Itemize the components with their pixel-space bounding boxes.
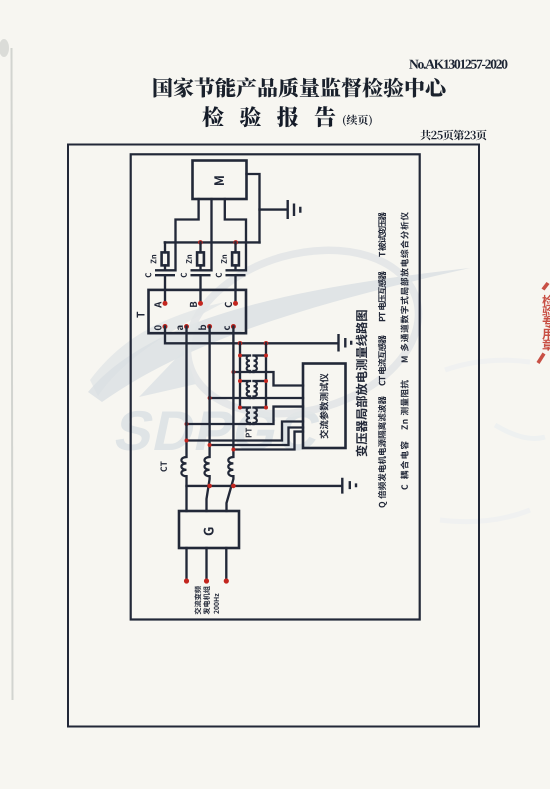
- stamp fragment characters: [542, 295, 550, 351]
- wire M lead 3: [225, 199, 246, 270]
- wire PT1 measuring lead: [233, 372, 303, 386]
- page count note: [420, 130, 486, 141]
- wire Zn to C A: [164, 265, 166, 270]
- watermark letters SDPGC: [109, 400, 326, 462]
- wire phase a lower: [185, 476, 187, 511]
- current transformer CT2 coil: [205, 457, 210, 476]
- scan smudge top-left: [0, 39, 9, 57]
- wire Zn to C C: [234, 265, 236, 270]
- legend CT 电流互感器: [378, 335, 386, 385]
- PT1 secondary winding: [254, 356, 257, 372]
- junction dot PT1 secondary bus: [264, 354, 268, 358]
- PT2 secondary bottom stub: [252, 397, 254, 399]
- wire G supply 2: [205, 548, 207, 581]
- legend Q 倍频发电机电源隔离滤波器: [378, 396, 387, 507]
- terminal dot a: [184, 324, 189, 329]
- AC parameter tester box: [303, 364, 346, 449]
- junction dot PT2 secondary bus: [264, 379, 268, 383]
- terminal dot B: [198, 301, 203, 306]
- PT3 primary winding: [247, 408, 250, 424]
- detector M box: [193, 161, 247, 200]
- wire C to T terminal B: [199, 275, 201, 303]
- label Zn (C): [221, 255, 227, 264]
- capacitor CB plates: [191, 270, 211, 275]
- wire PT2 measuring lead: [210, 397, 303, 399]
- wire CT2 measuring lead: [210, 428, 303, 446]
- header continuation note: [343, 115, 372, 127]
- wire G supply 1: [185, 548, 187, 581]
- junction dot PT1 primary bus: [238, 354, 242, 358]
- wire phase b lower: [207, 476, 210, 511]
- label PT: [246, 428, 252, 437]
- terminal dot b: [207, 324, 212, 329]
- wire CT3 measuring lead: [233, 432, 303, 450]
- ground 1 bars: [288, 200, 301, 219]
- supply terminal dot 2: [204, 578, 209, 583]
- PT1 secondary bottom stub: [252, 371, 254, 372]
- junction dot PT1 phase tap: [231, 370, 235, 374]
- ghost bleed-through marks: [440, 360, 545, 521]
- legend M 多通道数字式局部放电综合分析仪: [400, 212, 408, 362]
- supply terminal dot 1: [184, 578, 189, 583]
- current transformer CT1 coil: [181, 457, 186, 476]
- wire bus to Zn A: [164, 242, 166, 252]
- ground 2 bars: [342, 478, 356, 494]
- junction dot ground-b: [207, 484, 212, 489]
- report number No.AK1301257-2020: [409, 60, 507, 69]
- wire phase b upper: [208, 327, 210, 458]
- wire phase a upper: [185, 327, 187, 458]
- label 交流变频: [194, 586, 201, 614]
- header line 1 (center name): [154, 77, 446, 97]
- label T: [137, 312, 145, 318]
- wire CT1 measuring lead: [187, 422, 304, 441]
- watermark triangle mark: [139, 350, 196, 397]
- junction dot neutral-right bus: [264, 341, 269, 346]
- junction dot CT2 tap: [208, 443, 212, 447]
- label M: [214, 176, 224, 185]
- PT3 secondary winding: [254, 408, 257, 424]
- ground bus wire: [187, 485, 342, 487]
- junction dot PT3 primary bus: [238, 406, 242, 410]
- PT3 secondary bottom stub: [252, 423, 254, 424]
- capacitor CC plates: [226, 270, 246, 275]
- header line 2 (report title): [202, 106, 335, 127]
- wire M lead 1: [176, 199, 199, 270]
- PT1 primary bottom stub: [249, 371, 251, 372]
- diagram title 变压器局部放电测量线路图: [356, 310, 368, 456]
- junction dot neutral-left bus: [238, 341, 243, 346]
- terminal dot C: [233, 301, 238, 306]
- PT2 secondary winding: [254, 381, 257, 397]
- label 交流参数测试仪: [319, 373, 328, 438]
- wire C to T terminal A: [164, 275, 166, 303]
- label C (A): [145, 273, 151, 278]
- wire C to T terminal C: [234, 275, 236, 303]
- PT1 primary winding: [247, 356, 250, 372]
- scan edge line left: [12, 48, 13, 700]
- PT secondary bus: [265, 343, 267, 407]
- impedance ZnB box: [197, 252, 204, 265]
- wire M lead 2: [210, 199, 212, 270]
- impedance ZnC box: [232, 252, 239, 265]
- PT primary bus: [239, 343, 241, 407]
- capacitor CA plates: [155, 270, 175, 275]
- label CT: [160, 461, 167, 471]
- ground 3 bars: [339, 334, 352, 352]
- wire bus to Zn C: [234, 242, 236, 252]
- outer figure frame: [68, 145, 479, 727]
- current transformer CT3 coil: [228, 457, 233, 476]
- legend Zn 测量阻抗: [400, 380, 408, 429]
- junction dot CT1 tap: [185, 439, 189, 443]
- PT1 secondary top stub: [254, 354, 267, 356]
- wire phase c lower: [227, 476, 234, 511]
- terminal dot c: [231, 324, 236, 329]
- PT2 primary winding: [247, 381, 250, 397]
- PT2 primary bottom stub: [249, 397, 251, 399]
- impedance ZnA box: [162, 252, 169, 265]
- PT3 primary top stub: [240, 406, 250, 408]
- watermark swoosh band 2: [90, 302, 225, 396]
- junction dot PT2 primary bus: [238, 379, 242, 383]
- label a: [177, 326, 183, 330]
- junction dot bus-C: [233, 240, 238, 245]
- wire M right to ground and bus: [247, 174, 260, 242]
- label C (C): [216, 273, 222, 278]
- junction dot PT3 phase tap: [185, 422, 189, 426]
- stamp fragment ticks: [537, 282, 550, 364]
- PT3 primary bottom stub: [249, 423, 251, 424]
- label b: [198, 325, 206, 330]
- legend T 被试变压器: [378, 212, 386, 257]
- watermark swoosh band: [88, 268, 470, 402]
- label C (B): [181, 273, 187, 278]
- label 0: [154, 325, 161, 330]
- terminal dot 0: [163, 324, 168, 329]
- label B: [190, 302, 197, 307]
- wire phase c upper: [232, 327, 234, 458]
- label c: [224, 326, 230, 330]
- wire 0 to PT bus and ground: [165, 327, 338, 344]
- wire Zn to C B: [199, 265, 201, 270]
- label Zn (B): [186, 255, 192, 264]
- junction dot PT2 phase tap: [208, 396, 212, 400]
- junction dot bus-B: [198, 240, 203, 245]
- label G: [204, 528, 214, 536]
- label 200Hz: [214, 594, 219, 614]
- wire PT3 measuring lead: [187, 407, 304, 424]
- transformer T box: [149, 290, 247, 333]
- legend PT 电压互感器: [378, 271, 386, 321]
- PT2 secondary top stub: [254, 380, 267, 382]
- wire G supply 3: [225, 548, 227, 581]
- label C: [225, 302, 232, 307]
- watermark ellipse ring: [168, 224, 438, 439]
- ground 1 stem: [260, 208, 288, 210]
- generator G box: [179, 511, 239, 548]
- junction dot CT3 tap: [231, 448, 235, 452]
- inner schematic frame: [131, 154, 420, 619]
- PT2 primary top stub: [240, 380, 250, 382]
- wire bus to Zn B: [199, 242, 201, 252]
- PT1 primary top stub: [240, 354, 250, 356]
- terminal dot A: [163, 301, 168, 306]
- PT3 secondary top stub: [254, 406, 267, 408]
- label 发电机组: [203, 586, 210, 614]
- supply terminal dot 3: [224, 578, 229, 583]
- junction dot ground-c: [231, 484, 236, 489]
- measuring bus wire: [165, 241, 260, 243]
- junction dot PT3 secondary bus: [264, 406, 268, 410]
- label Zn (A): [151, 255, 157, 264]
- label A: [154, 302, 161, 308]
- legend C 耦合电容: [400, 441, 408, 489]
